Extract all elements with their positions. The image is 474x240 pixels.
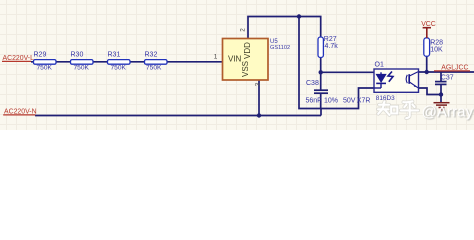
svg-text:O1: O1 — [375, 62, 384, 69]
svg-text:VIN: VIN — [228, 55, 242, 64]
svg-text:C37: C37 — [441, 74, 454, 81]
svg-text:750K: 750K — [37, 64, 53, 71]
svg-text:750K: 750K — [146, 64, 162, 71]
svg-text:10K: 10K — [430, 46, 443, 53]
svg-text:750K: 750K — [74, 64, 90, 71]
svg-text:R31: R31 — [108, 51, 121, 58]
svg-text:750K: 750K — [111, 64, 127, 71]
svg-text:4.7k: 4.7k — [325, 43, 339, 50]
svg-text:10%: 10% — [324, 98, 338, 105]
svg-text:@Array: @Array — [422, 103, 474, 120]
svg-text:1: 1 — [214, 54, 218, 61]
svg-text:2: 2 — [240, 28, 247, 32]
svg-text:3: 3 — [255, 82, 262, 86]
svg-text:R32: R32 — [145, 51, 158, 58]
svg-text:VDD: VDD — [243, 42, 252, 59]
svg-text:GS1102: GS1102 — [270, 45, 290, 51]
svg-text:50V: 50V — [343, 98, 356, 105]
svg-text:C38: C38 — [306, 80, 319, 87]
svg-text:R30: R30 — [71, 51, 84, 58]
svg-text:X7R: X7R — [357, 98, 371, 105]
svg-text:VSS: VSS — [241, 61, 250, 77]
svg-text:R28: R28 — [430, 39, 443, 46]
svg-text:R29: R29 — [34, 51, 47, 58]
svg-text:VCC: VCC — [421, 21, 436, 28]
svg-text:56nF: 56nF — [306, 98, 322, 105]
